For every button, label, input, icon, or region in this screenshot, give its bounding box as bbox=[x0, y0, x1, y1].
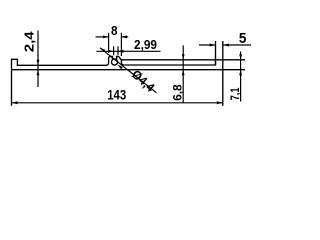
svg-text:2,99: 2,99 bbox=[134, 38, 157, 52]
dim 2,99 line bbox=[97, 50, 161, 52]
screw channel circle bbox=[111, 59, 117, 65]
svg-text:2,4: 2,4 bbox=[22, 31, 36, 52]
dim 2,4 line bbox=[37, 31, 39, 88]
svg-text:5: 5 bbox=[239, 30, 247, 47]
arrow 2,99 right (left-pointing) bbox=[118, 50, 124, 53]
arrow leader Ø4,4 at circle (pointing up-left into circle) bbox=[117, 65, 123, 70]
dim 8 ext lines bbox=[108, 33, 110, 53]
svg-text:143: 143 bbox=[107, 88, 126, 103]
arrow 2,4 top (down) bbox=[37, 60, 40, 66]
dim 7,1 line bbox=[240, 52, 242, 102]
arrow 143 right (right-pointing, inside) bbox=[217, 101, 223, 104]
svg-text:6,8: 6,8 bbox=[172, 84, 184, 101]
dim 2,99 ext ticks bbox=[113, 46, 115, 55]
profile left outline: left end face, lip, top surface, boss left wall, slot left edge bbox=[12, 56, 113, 105]
arrow 143 left (left-pointing, inside) bbox=[12, 101, 18, 104]
arrow 6,8 bottom (up) bbox=[182, 70, 185, 76]
arrow leader Ø4,4 upper (pointing up-left) bbox=[100, 48, 105, 52]
dim 5 line segments bbox=[199, 44, 216, 46]
middle line (pad underside) with step up at right bbox=[124, 60, 215, 65]
svg-text:8: 8 bbox=[111, 23, 118, 38]
step edge / ext line for 5 bbox=[215, 41, 217, 65]
bottom surface line (with 7,1 bottom extension) bbox=[12, 69, 246, 71]
arrow 6,8 top (down) bbox=[182, 54, 185, 60]
arrow 5 left (right-pointing) bbox=[210, 44, 216, 47]
leader line Ø4,4 bbox=[100, 48, 157, 93]
dim 8 line segments bbox=[96, 36, 109, 38]
arrow 8 left (right-pointing) bbox=[103, 35, 109, 38]
dim 143 line bbox=[12, 102, 223, 104]
arrow 5 right (left-pointing) bbox=[223, 44, 229, 47]
arrow 7,1 top (down) bbox=[239, 54, 242, 60]
arrow 7,1 bottom (up) bbox=[239, 70, 242, 76]
right end face (also ext for 5 and 143) bbox=[222, 41, 224, 106]
arrow 2,4 bottom (up) bbox=[37, 70, 40, 76]
pad left face below jaw bbox=[121, 60, 124, 65]
dim 6,8 line bbox=[182, 45, 184, 102]
arrow 8 right (left-pointing) bbox=[121, 35, 127, 38]
profile boss right jaw and pad top surface (with 7,1 top extension) bbox=[117, 56, 245, 59]
svg-text:7,1: 7,1 bbox=[228, 87, 242, 100]
arrow 2,99 left (right-pointing) bbox=[108, 50, 114, 53]
